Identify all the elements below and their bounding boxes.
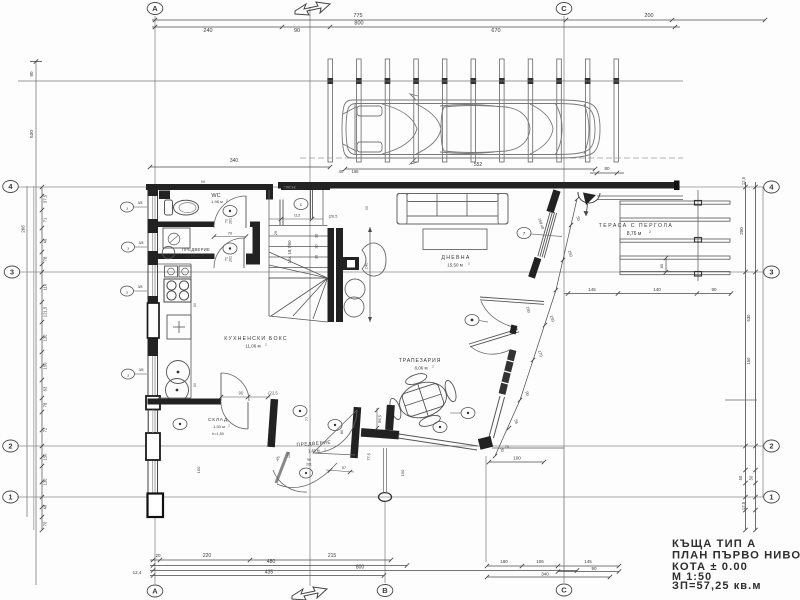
vestibule stub wall [361, 428, 400, 439]
bottom dimension line 800 [150, 565, 579, 573]
ellipse on grid 1 [379, 493, 392, 502]
svg-text:84,5: 84,5 [377, 414, 383, 423]
svg-text:150: 150 [43, 362, 48, 370]
grid axis 4 horizontal line [18, 186, 764, 188]
svg-text:15,50 м: 15,50 м [447, 263, 463, 268]
round chair 2 [344, 297, 364, 317]
vestibule upper right wall [385, 405, 395, 430]
svg-text:57: 57 [342, 466, 346, 470]
WC door arc [214, 196, 246, 228]
armchair near fireplace [362, 243, 386, 276]
svg-text:з: з [127, 373, 129, 378]
dimension 340 left of carport [148, 158, 332, 169]
svg-text:670: 670 [491, 28, 500, 34]
bottom diag window [399, 434, 478, 446]
grid circle 3 right [764, 266, 780, 278]
svg-text:77: 77 [305, 417, 309, 421]
grid circle 2 right [764, 440, 780, 452]
svg-text:ПЯСЪК: ПЯСЪК [284, 186, 295, 190]
svg-text:2: 2 [8, 441, 12, 450]
svg-text:775: 775 [353, 13, 362, 19]
diagonal wall with windows [478, 189, 561, 449]
svg-text:ЗП=57,25 кв.м: ЗП=57,25 кв.м [672, 580, 762, 592]
svg-text:201: 201 [306, 463, 312, 467]
orientation arrow bottom [292, 587, 327, 600]
svg-text:60: 60 [193, 303, 197, 307]
svg-text:С: С [561, 585, 567, 594]
svg-text:50: 50 [749, 475, 754, 480]
svg-text:20: 20 [155, 553, 161, 558]
svg-text:800: 800 [354, 21, 363, 27]
svg-text:201: 201 [229, 256, 233, 262]
grid circle C top [556, 3, 572, 15]
window mark circle d [122, 369, 135, 379]
grid circle B bottom [377, 585, 393, 597]
door label circle 4 [223, 206, 237, 217]
svg-text:266: 266 [21, 225, 26, 233]
svg-text:140: 140 [653, 287, 661, 292]
door label circle 8 [465, 315, 479, 326]
svg-text:215: 215 [328, 553, 337, 559]
kitchen counter edge [190, 264, 192, 398]
carport pergola slats [327, 59, 619, 162]
stair vertical dimension [364, 227, 373, 322]
svg-text:С: С [561, 4, 567, 13]
svg-text:A: A [152, 586, 158, 595]
circle 6 label [433, 422, 447, 433]
svg-text:2: 2 [769, 441, 773, 450]
svg-text:110: 110 [43, 283, 48, 290]
carport edge beam thick bar [278, 182, 679, 189]
svg-text:90: 90 [294, 28, 300, 34]
svg-text:ПРЕДВЕРИЕ: ПРЕДВЕРИЕ [182, 247, 210, 252]
svg-text:130: 130 [43, 478, 48, 486]
grid axis 3 horizontal line [19, 271, 764, 273]
carport beam line [18, 80, 683, 82]
svg-text:30: 30 [315, 244, 319, 248]
vestibule door arc right [313, 410, 357, 455]
wall WC/vestibule horizontal [156, 222, 214, 228]
svg-text:A: A [152, 4, 158, 13]
svg-text:25: 25 [274, 231, 278, 235]
grid axis A vertical line [154, 16, 156, 584]
svg-text:90: 90 [591, 566, 597, 571]
svg-text:з: з [127, 246, 129, 251]
entry outside arc [273, 470, 307, 492]
svg-text:3/8: 3/8 [139, 241, 144, 245]
svg-text:150: 150 [746, 357, 751, 365]
window mark circle b [122, 242, 135, 252]
svg-text:78: 78 [43, 402, 48, 407]
svg-text:ТЕРАСА С ПЕРГОЛА: ТЕРАСА С ПЕРГОЛА [599, 223, 674, 229]
svg-text:3/8: 3/8 [138, 285, 143, 289]
svg-text:КУХНЕНСКИ БОКС: КУХНЕНСКИ БОКС [224, 336, 288, 342]
svg-text:2: 2 [649, 230, 651, 234]
svg-text:з: з [126, 290, 128, 295]
entry arrow [578, 192, 600, 203]
svg-text:220: 220 [203, 553, 212, 559]
window mark circle c [121, 286, 134, 296]
svg-text:480: 480 [267, 559, 276, 565]
svg-text:150: 150 [196, 466, 201, 473]
svg-text:50: 50 [738, 475, 743, 480]
dim 100 bottom [489, 461, 544, 463]
svg-text:100: 100 [513, 456, 521, 461]
north arrow top [295, 2, 330, 15]
svg-text:70: 70 [43, 521, 48, 526]
svg-text:8,76 м: 8,76 м [627, 231, 642, 237]
top dimension line 800/240/90/670 [152, 21, 680, 35]
svg-text:80: 80 [340, 430, 344, 434]
svg-text:165: 165 [352, 169, 360, 174]
dining table with chairs [383, 364, 463, 435]
svg-text:130: 130 [43, 334, 48, 342]
door circle sklad [293, 406, 307, 417]
fireplace [343, 257, 359, 270]
svg-text:435: 435 [265, 570, 274, 576]
car dimension 552 [343, 162, 597, 171]
top dimension line 775/200 [152, 13, 767, 22]
svg-text:11,06 м: 11,06 м [245, 344, 260, 349]
round chair 1 [345, 279, 365, 299]
door label circle lower [223, 243, 237, 254]
grid circle 3 left [4, 266, 20, 278]
circle 5 label [461, 408, 475, 419]
svg-text:3: 3 [10, 267, 14, 276]
svg-text:3/8: 3/8 [139, 368, 144, 372]
svg-text:(26,5: (26,5 [329, 215, 338, 219]
svg-text:h=1,50: h=1,50 [212, 432, 224, 436]
svg-text:55: 55 [364, 205, 369, 210]
svg-text:1,98 м: 1,98 м [211, 199, 223, 204]
svg-text:1,98 м: 1,98 м [187, 254, 198, 258]
grid circle 1 left [3, 491, 19, 503]
patio door mullion [510, 325, 518, 335]
svg-text:240: 240 [203, 28, 212, 34]
svg-text:37,5: 37,5 [43, 194, 48, 203]
wall vestibule bottom [148, 254, 215, 260]
bottom dimension line 480 [150, 559, 409, 568]
kitchen stove [164, 279, 191, 302]
wall corner block stair [279, 200, 281, 226]
terrace small dim 85 [659, 256, 668, 274]
svg-text:30: 30 [315, 255, 319, 259]
svg-text:78: 78 [43, 256, 48, 261]
left wall bottom column [148, 494, 164, 518]
bottom dimension line 435 [133, 570, 387, 578]
svg-text:40: 40 [339, 169, 344, 174]
svg-text:3/8: 3/8 [138, 201, 143, 205]
kitchen door arc [221, 373, 249, 401]
top exterior wall [146, 184, 273, 190]
svg-text:77,5: 77,5 [367, 453, 372, 461]
grid circle A top [147, 3, 163, 15]
svg-text:180: 180 [500, 559, 508, 564]
svg-text:530: 530 [29, 130, 35, 138]
svg-text:1: 1 [8, 492, 12, 501]
svg-text:150: 150 [43, 453, 48, 461]
title block [672, 538, 800, 592]
sklad top wall [148, 399, 222, 405]
svg-text:340: 340 [230, 158, 239, 164]
lobby door arc [214, 238, 244, 268]
vestibule left wall [267, 399, 278, 447]
coffee table [423, 229, 487, 250]
svg-text:46: 46 [43, 504, 48, 509]
terrace pergola slats [620, 190, 730, 281]
svg-text:71: 71 [43, 217, 48, 222]
grid axis C vertical line [563, 16, 565, 583]
vestibule right wall [350, 407, 361, 458]
svg-text:200: 200 [739, 227, 744, 235]
svg-text:106: 106 [536, 559, 544, 564]
svg-text:150: 150 [287, 452, 291, 458]
svg-text:112: 112 [294, 213, 301, 218]
grid circle 4 right [764, 181, 780, 193]
sofa [397, 194, 508, 225]
laundry circle 1 [167, 361, 190, 384]
bottom dimension line 20/220/215 [150, 553, 393, 562]
svg-text:12,5: 12,5 [741, 176, 746, 185]
entry dim 57 [326, 470, 354, 472]
svg-text:63: 63 [43, 386, 48, 391]
bottom-right dimension line 180/106/145 [485, 559, 621, 568]
door label circle c [294, 199, 308, 210]
laundry circle 2 [166, 379, 189, 402]
grid circle 1 right [764, 491, 780, 503]
svg-text:121,5: 121,5 [43, 306, 48, 317]
svg-text:90: 90 [201, 179, 206, 184]
grid circle A bottom [147, 585, 163, 597]
svg-text:145: 145 [588, 287, 596, 292]
svg-text:В: В [382, 586, 388, 595]
svg-text:1: 1 [769, 492, 773, 501]
svg-text:30: 30 [315, 234, 319, 238]
sklad door arc [221, 402, 248, 429]
kitchen counter block [167, 315, 191, 339]
svg-text:12,4: 12,4 [133, 570, 142, 575]
door circle vest2 [328, 420, 342, 431]
entry door swing arc [277, 463, 337, 488]
toilet [165, 200, 173, 215]
svg-text:8,06 м: 8,06 м [414, 366, 427, 371]
svg-text:552: 552 [474, 162, 483, 168]
svg-text:145: 145 [584, 559, 592, 564]
left dimension chain [21, 61, 48, 585]
svg-text:201: 201 [229, 218, 233, 224]
entry door leaf [276, 452, 288, 483]
window mark circle a [121, 202, 134, 212]
terrace top edge lines [597, 195, 683, 197]
svg-text:630: 630 [746, 314, 751, 322]
door circle 9 [173, 419, 187, 430]
kitchen sink [165, 266, 178, 277]
line right of endblock [492, 447, 564, 449]
wall WC right vertical [253, 224, 261, 265]
svg-text:340: 340 [541, 572, 549, 577]
svg-text:72: 72 [43, 427, 48, 432]
stairs [269, 226, 343, 323]
svg-text:90: 90 [711, 287, 717, 292]
svg-text:1,50 м: 1,50 м [213, 424, 225, 429]
grid axis 1 horizontal line [17, 496, 763, 498]
grid axis mid vertical line x310 [309, 7, 311, 586]
small dims above stairs [339, 169, 359, 174]
bottom-right dimension line 90 [556, 566, 621, 574]
stair dim 112 [269, 218, 323, 220]
svg-text:60: 60 [193, 383, 197, 387]
svg-text:12,5: 12,5 [741, 501, 746, 510]
svg-text:90: 90 [307, 458, 311, 462]
left exterior wall with windows [146, 184, 160, 493]
diagonal dimension chain [493, 197, 582, 458]
grid circle 4 left [3, 181, 19, 193]
grid circle C bottom [556, 584, 572, 596]
patio double door leaves [469, 297, 544, 354]
svg-text:3: 3 [769, 267, 773, 276]
svg-text:ТРАПЕЗАРИЯ: ТРАПЕЗАРИЯ [399, 358, 441, 364]
svg-text:90: 90 [239, 391, 244, 396]
right dimension chain [725, 176, 763, 532]
svg-text:46: 46 [43, 238, 48, 243]
bottom-right dimension line 340 [485, 572, 612, 580]
svg-text:200: 200 [644, 13, 653, 19]
dimension 80 near axis C [590, 166, 624, 175]
svg-text:85: 85 [659, 263, 664, 268]
carport centerline dashed [300, 157, 683, 159]
circle a label [300, 468, 313, 478]
svg-text:70: 70 [228, 231, 233, 236]
svg-text:150: 150 [400, 469, 405, 476]
svg-text:ДНЕВНА: ДНЕВНА [441, 255, 470, 261]
svg-text:КЪЩА ТИП А: КЪЩА ТИП А [672, 538, 756, 550]
terrace bottom dimension 145/140/90 [564, 287, 733, 296]
svg-text:з: з [126, 206, 128, 211]
svg-text:80: 80 [604, 166, 610, 171]
vestibule basin circle [162, 246, 174, 258]
grid axis 2 horizontal line [17, 445, 763, 447]
svg-text:СКЛАД: СКЛАД [208, 417, 228, 423]
svg-text:15х. 18,7/50: 15х. 18,7/50 [287, 240, 292, 264]
svg-text:80: 80 [29, 71, 34, 77]
vestibule washbasin counter [163, 228, 190, 248]
svg-text:ПЛАН ПЪРВО НИВО: ПЛАН ПЪРВО НИВО [672, 550, 800, 562]
grid axis B vertical line [383, 448, 385, 492]
stair upper thin walls [310, 190, 312, 219]
grid circle 2 left [3, 440, 19, 452]
left margin top tick [30, 61, 42, 63]
car top view [342, 94, 600, 164]
svg-text:800: 800 [356, 565, 365, 571]
window label circle 7 [517, 228, 531, 239]
